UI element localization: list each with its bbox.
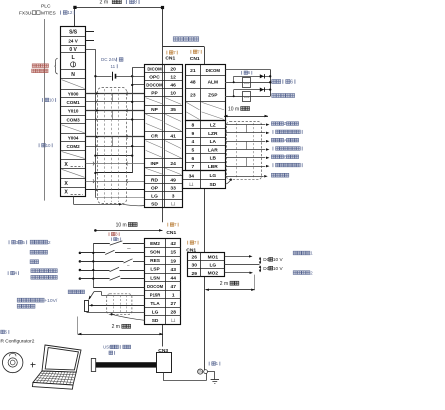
svg-text:CN1: CN1 (190, 56, 200, 62)
svg-text:LZ: LZ (210, 122, 216, 128)
svg-text:MR Configurator2: MR Configurator2 (0, 339, 35, 345)
svg-text:MO1: MO1 (208, 254, 219, 260)
svg-text:LSP: LSP (150, 267, 160, 273)
MO1 wire (225, 256, 249, 258)
svg-text:10: 10 (49, 97, 54, 102)
DOCOM wire (93, 287, 144, 289)
PLC terminal unused row10 (62, 125, 85, 133)
DICOM 24V rail (225, 69, 270, 71)
svg-text:CR: CR (151, 134, 158, 140)
svg-text:33: 33 (170, 186, 176, 192)
svg-text:Y000: Y000 (68, 91, 79, 96)
svg-text:COM2: COM2 (66, 144, 80, 149)
wire encoder LZ (225, 124, 265, 126)
MO box (188, 253, 225, 277)
svg-text:4: 4 (191, 139, 194, 145)
svg-text:12: 12 (170, 75, 176, 81)
LG control common (225, 176, 264, 178)
svg-text:6: 6 (290, 79, 293, 85)
PLC terminal unused row5 (62, 80, 85, 89)
svg-text:RES: RES (150, 258, 161, 264)
svg-text:3: 3 (172, 194, 175, 200)
svg-text:10: 10 (170, 91, 176, 97)
svg-text:SON: SON (150, 250, 161, 256)
svg-text:PLC: PLC (41, 3, 51, 9)
svg-text:34: 34 (189, 173, 195, 179)
svg-text:2: 2 (310, 270, 313, 275)
svg-text:DICOM: DICOM (206, 68, 221, 73)
feedback wires (86, 163, 145, 165)
shield connection (230, 179, 232, 181)
wire encoder LAR (225, 149, 265, 151)
voltage range arrows (260, 258, 262, 264)
switch RES reset (79, 260, 82, 263)
CN1 left column (145, 65, 183, 208)
USB cable (91, 359, 95, 372)
svg-text:5: 5 (117, 237, 119, 241)
svg-text:LG: LG (152, 309, 159, 315)
svg-text:41: 41 (170, 134, 176, 140)
cable twist marks (95, 100, 96, 104)
note5 (110, 238, 113, 241)
left input labels (8, 240, 11, 244)
svg-text:11: 11 (111, 64, 116, 69)
svg-text:LG: LG (209, 173, 216, 179)
svg-text:28: 28 (170, 310, 176, 316)
DOCOM rail (93, 244, 95, 288)
svg-text:RA2: RA2 (244, 95, 250, 99)
servo amplifier outline (163, 46, 205, 48)
svg-text:10 V: 10 V (273, 257, 284, 262)
CN1 lower column (145, 239, 181, 325)
svg-text:9: 9 (191, 131, 194, 137)
svg-text:1: 1 (310, 251, 313, 256)
svg-text:TLA: TLA (150, 301, 160, 307)
svg-text:5: 5 (191, 147, 194, 153)
PLC terminal unused row15 (62, 169, 85, 177)
svg-text:X: X (64, 162, 68, 168)
earth ground (208, 371, 215, 373)
svg-text:0 V: 0 V (69, 47, 77, 53)
link wires (95, 155, 132, 157)
svg-text:RA1: RA1 (244, 81, 250, 85)
CN1 unused row (146, 114, 164, 121)
svg-text:19: 19 (170, 258, 176, 264)
+24V bus (132, 68, 134, 173)
svg-text:FX3U-: FX3U- (19, 11, 33, 17)
svg-text:CN1: CN1 (166, 230, 176, 236)
svg-text:29: 29 (192, 271, 198, 277)
shielded cable (PLC-CN1) (98, 88, 127, 204)
laptop icon (32, 345, 81, 389)
svg-text:8: 8 (191, 123, 194, 129)
svg-text:DICOM: DICOM (147, 66, 162, 71)
svg-text:Y004: Y004 (68, 136, 79, 141)
CN1 unused row (146, 168, 164, 174)
svg-text:EM2: EM2 (150, 241, 160, 247)
svg-text:LZR: LZR (208, 131, 218, 137)
svg-text:30: 30 (192, 263, 198, 269)
svg-text:ZSP: ZSP (208, 93, 218, 99)
svg-text:CN1: CN1 (165, 56, 175, 62)
svg-text:COM1: COM1 (66, 100, 80, 105)
MO2 wire (225, 272, 250, 274)
svg-text:RD: RD (151, 177, 158, 183)
svg-text:OPC: OPC (149, 75, 160, 81)
plus (31, 364, 36, 366)
svg-text:X: X (64, 190, 68, 196)
LG wire (86, 311, 88, 312)
svg-text:INP: INP (151, 161, 160, 167)
switch LSN stroke end (79, 277, 82, 280)
CN1 header left (165, 51, 168, 55)
analog cable shield (107, 294, 132, 315)
svg-text:10 m: 10 m (228, 106, 239, 112)
svg-text:LSN: LSN (150, 275, 160, 281)
svg-text:X: X (64, 181, 68, 187)
battery symbol (95, 76, 111, 78)
svg-text:26: 26 (192, 255, 198, 261)
potentiometer (85, 301, 89, 312)
svg-text:35: 35 (170, 107, 176, 113)
svg-text:SD: SD (151, 201, 158, 207)
svg-text:LBR: LBR (208, 164, 218, 170)
PE terminal (198, 369, 203, 374)
PLC power supply label (32, 64, 36, 68)
shield wire to SD (73, 196, 75, 204)
switch LSP stroke end (79, 269, 82, 272)
CN3 ground wire (163, 372, 165, 381)
svg-text:2 m: 2 m (112, 324, 120, 330)
CN1 unused row (146, 141, 164, 149)
svg-text:27: 27 (170, 301, 176, 307)
svg-text:MT/ES: MT/ES (41, 11, 56, 17)
svg-text:10: 10 (46, 143, 51, 148)
svg-text:Y010: Y010 (68, 109, 79, 114)
svg-text:24 V: 24 V (68, 39, 78, 44)
brace (55, 58, 58, 74)
svg-text:ALM: ALM (208, 79, 218, 85)
svg-text:2 m: 2 m (220, 281, 228, 287)
svg-text:10 V: 10 V (273, 266, 284, 271)
svg-text:6: 6 (191, 156, 194, 162)
svg-text:2 m: 2 m (100, 0, 109, 5)
svg-text:LA: LA (210, 139, 217, 145)
svg-text:LAR: LAR (208, 147, 218, 153)
CN1 header right (189, 50, 192, 54)
servo amplifier title (173, 37, 178, 41)
svg-text:SD: SD (152, 318, 159, 324)
svg-text:OP: OP (151, 185, 159, 191)
encoder cable shield box (227, 122, 262, 180)
svg-text:LG: LG (209, 263, 216, 269)
CN1 unused row (186, 102, 199, 110)
pulse signal wires (86, 93, 145, 95)
P15R wire (102, 295, 145, 297)
COM wires (86, 101, 145, 103)
svg-text:8: 8 (134, 0, 137, 5)
svg-text:PP: PP (151, 91, 158, 97)
svg-text:49: 49 (170, 177, 176, 183)
svg-text:46: 46 (170, 83, 176, 89)
svg-text:44: 44 (170, 275, 176, 281)
svg-text:12: 12 (67, 10, 73, 15)
svg-text:20: 20 (170, 67, 176, 73)
PLC bracket line (44, 19, 46, 201)
svg-text:15: 15 (170, 250, 176, 256)
torque limit labels (17, 298, 21, 302)
PLC terminal unused row13 (62, 152, 85, 159)
svg-text:DOCOM: DOCOM (146, 83, 163, 88)
CD-ROM icon (3, 352, 23, 372)
diode D1 (260, 74, 264, 78)
svg-text:NP: NP (151, 107, 158, 113)
svg-text:COM3: COM3 (66, 117, 80, 122)
CN1 MO header (186, 241, 189, 245)
svg-text:10 m: 10 m (116, 222, 127, 228)
svg-text:23: 23 (190, 93, 196, 99)
relay RA2 (zero speed) (225, 96, 270, 98)
svg-text:N: N (71, 72, 75, 78)
svg-text:1: 1 (172, 292, 175, 298)
svg-text:P15R: P15R (150, 292, 160, 297)
svg-text:21: 21 (190, 68, 196, 74)
svg-text:47: 47 (170, 284, 176, 290)
TLA wiper wire (89, 305, 145, 307)
wire 0V down (86, 49, 96, 51)
CN1 lower header (166, 223, 169, 227)
wire encoder LBR (225, 166, 265, 168)
svg-text:+10V/: +10V/ (44, 298, 58, 304)
svg-text:2: 2 (48, 240, 51, 246)
svg-text:DOCOM: DOCOM (147, 284, 164, 289)
wire encoder LZR (225, 132, 265, 134)
note10 labels (41, 98, 44, 102)
svg-text:DC 24V: DC 24V (101, 57, 117, 62)
svg-text:LG: LG (151, 193, 158, 199)
svg-text:MO2: MO2 (208, 271, 219, 277)
upper limit setting label (68, 290, 72, 294)
svg-text:7: 7 (191, 164, 194, 170)
CN1 unused row (146, 98, 164, 104)
svg-text:SD: SD (209, 182, 216, 188)
PLC terminal box (61, 27, 86, 197)
svg-text:48: 48 (190, 80, 196, 86)
relay RA1 (fault) (225, 82, 270, 84)
svg-text:24: 24 (170, 161, 176, 167)
fault label (272, 80, 276, 84)
note3 (108, 232, 111, 236)
svg-text:LB: LB (210, 156, 217, 162)
switch SON servo-on (79, 252, 82, 255)
svg-text:43: 43 (170, 267, 176, 273)
svg-text:S/S: S/S (69, 29, 78, 35)
note6 (240, 71, 243, 75)
CN1 right column (186, 65, 226, 121)
svg-text:42: 42 (170, 241, 176, 247)
monitor LG wire (225, 264, 260, 266)
zero speed label (272, 94, 276, 98)
wire encoder LB (225, 157, 265, 159)
switch EM2 forced stop (93, 243, 110, 245)
wire encoder LA (225, 141, 265, 143)
